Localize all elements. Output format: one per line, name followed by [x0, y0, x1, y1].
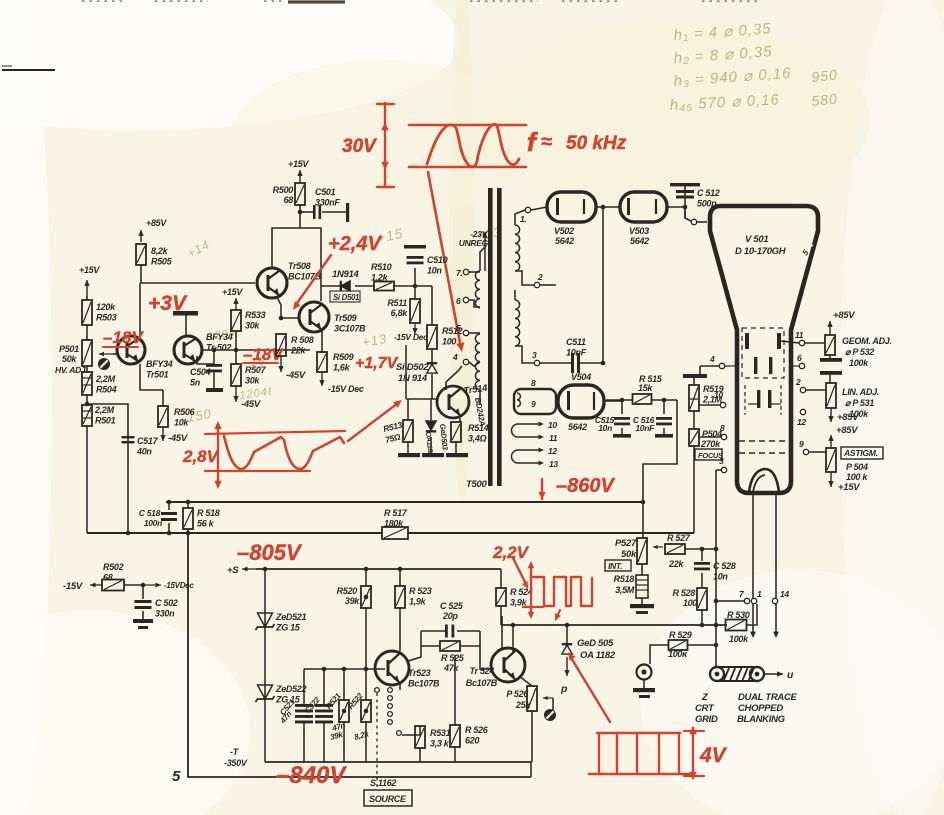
svg-text:+85V: +85V	[146, 218, 167, 228]
svg-text:R531: R531	[430, 728, 451, 738]
svg-text:5642: 5642	[555, 236, 574, 246]
svg-text:V502: V502	[554, 226, 574, 236]
svg-text:47k: 47k	[443, 663, 459, 673]
svg-text:R533: R533	[245, 310, 266, 320]
svg-text:12: 12	[797, 417, 806, 427]
svg-text:12: 12	[548, 446, 557, 456]
svg-text:-15V Dec: -15V Dec	[394, 332, 428, 342]
svg-text:R 528: R 528	[672, 588, 695, 598]
svg-text:DUAL TRACE: DUAL TRACE	[738, 692, 798, 703]
svg-text:INT.: INT.	[608, 561, 622, 571]
svg-text:3,4Ω: 3,4Ω	[468, 434, 487, 444]
svg-text:GeD 505: GeD 505	[577, 638, 614, 649]
svg-text:–805V: –805V	[237, 540, 303, 565]
svg-text:580: 580	[811, 90, 839, 109]
svg-text:10n: 10n	[598, 423, 612, 433]
svg-text:9: 9	[799, 439, 804, 449]
svg-text:950: 950	[811, 66, 839, 85]
svg-text:-350V: -350V	[224, 758, 248, 768]
svg-text:10: 10	[548, 420, 557, 430]
svg-text:R 526: R 526	[465, 725, 489, 735]
svg-text:10nF: 10nF	[635, 423, 655, 433]
svg-text:10n: 10n	[713, 572, 728, 582]
svg-text:Tr508: Tr508	[288, 261, 311, 271]
svg-text:R505: R505	[151, 257, 173, 267]
svg-text:u: u	[787, 669, 794, 681]
svg-text:Si D501: Si D501	[333, 293, 359, 302]
svg-text:30k: 30k	[245, 376, 260, 386]
svg-text:-15VDec: -15VDec	[164, 581, 194, 590]
svg-text:R 523: R 523	[409, 586, 432, 596]
svg-text:R514: R514	[468, 423, 489, 433]
svg-text:50 kHz: 50 kHz	[566, 133, 627, 154]
svg-text:R 524: R 524	[510, 587, 533, 597]
svg-text:22k: 22k	[290, 346, 306, 356]
svg-text:7.: 7.	[456, 268, 463, 278]
svg-text:R503: R503	[96, 313, 117, 323]
svg-text:ZeD521: ZeD521	[275, 612, 307, 622]
svg-text:LIN. ADJ.: LIN. ADJ.	[842, 387, 879, 397]
svg-text:GRID: GRID	[695, 714, 718, 725]
svg-text:R500: R500	[273, 185, 294, 195]
svg-text:R 527: R 527	[667, 533, 691, 543]
svg-text:Tr523: Tr523	[408, 668, 431, 678]
svg-text:1,6k: 1,6k	[333, 363, 351, 373]
svg-text:5n: 5n	[190, 378, 201, 388]
svg-text:11: 11	[549, 433, 558, 443]
svg-text:10nF: 10nF	[566, 348, 587, 358]
svg-text:R501: R501	[95, 416, 116, 426]
svg-text:C517: C517	[137, 436, 159, 446]
svg-text:68: 68	[103, 573, 113, 583]
svg-text:V504: V504	[571, 372, 591, 382]
svg-text:2,2V: 2,2V	[492, 543, 530, 562]
svg-text:+15V: +15V	[79, 265, 100, 275]
svg-text:120k: 120k	[96, 302, 116, 312]
svg-text:R520: R520	[337, 586, 358, 596]
svg-text:ZG 15: ZG 15	[275, 623, 301, 633]
svg-text:-15V: -15V	[63, 581, 83, 592]
svg-text:3,5M: 3,5M	[615, 585, 635, 595]
svg-text:C511: C511	[566, 337, 586, 347]
svg-text:1.: 1.	[520, 214, 527, 224]
svg-text:–860V: –860V	[556, 475, 615, 497]
svg-text:P 526: P 526	[506, 689, 529, 699]
svg-text:620: 620	[465, 736, 479, 746]
svg-text:22k: 22k	[668, 559, 684, 569]
svg-text:R502: R502	[103, 562, 124, 572]
svg-text:+15V: +15V	[222, 287, 243, 297]
svg-text:20p: 20p	[442, 611, 458, 621]
svg-text:100: 100	[442, 337, 456, 347]
svg-text:V503: V503	[629, 226, 649, 236]
svg-text:8: 8	[531, 378, 536, 388]
svg-text:5: 5	[456, 323, 461, 333]
svg-text:330n: 330n	[155, 609, 175, 619]
svg-text:+15V: +15V	[288, 159, 309, 169]
svg-text:2,8V: 2,8V	[182, 447, 220, 466]
svg-text:3: 3	[532, 350, 537, 360]
svg-text:T500: T500	[466, 479, 487, 490]
svg-text:P 504: P 504	[846, 462, 868, 472]
svg-text:5: 5	[172, 768, 181, 785]
svg-text:15k: 15k	[638, 383, 653, 393]
svg-text:ZeD522: ZeD522	[275, 684, 307, 694]
svg-text:+15V: +15V	[838, 482, 860, 493]
svg-text:100 k: 100 k	[846, 472, 868, 482]
svg-text:14: 14	[780, 589, 789, 599]
svg-text:⌀ P 532: ⌀ P 532	[845, 347, 874, 357]
svg-text:Bc107B: Bc107B	[466, 678, 498, 688]
svg-text:Si D502: Si D502	[396, 362, 429, 373]
svg-text:R511: R511	[387, 298, 407, 308]
svg-text:+2,4V: +2,4V	[328, 233, 382, 255]
svg-text:P527: P527	[615, 538, 637, 549]
svg-text:R 517: R 517	[384, 508, 408, 518]
svg-text:50k: 50k	[621, 549, 637, 560]
svg-text:R 518: R 518	[197, 508, 220, 518]
svg-text:39k: 39k	[345, 596, 360, 606]
svg-text:C 518: C 518	[139, 508, 161, 518]
svg-text:≈: ≈	[541, 131, 552, 153]
svg-text:68: 68	[284, 195, 294, 205]
svg-text:100: 100	[683, 598, 697, 608]
svg-text:10k: 10k	[174, 418, 189, 428]
svg-text:13: 13	[549, 459, 558, 469]
svg-text:R 530: R 530	[727, 610, 750, 620]
svg-text:–18V: –18V	[103, 328, 144, 347]
svg-text:Tr-502: Tr-502	[206, 343, 231, 353]
svg-text:6: 6	[797, 353, 802, 363]
svg-text:–18V: –18V	[243, 345, 284, 364]
svg-text:11: 11	[795, 330, 804, 340]
svg-text:Tr509: Tr509	[334, 313, 357, 323]
svg-text:–840V: –840V	[276, 762, 347, 789]
svg-text:R518: R518	[614, 574, 635, 584]
svg-text:C 528: C 528	[713, 561, 736, 571]
svg-text:+3V: +3V	[148, 292, 188, 315]
svg-text:6,8k: 6,8k	[391, 308, 409, 318]
svg-text:100k: 100k	[729, 634, 749, 644]
svg-text:C 525: C 525	[440, 601, 464, 611]
svg-text:BLANKING: BLANKING	[737, 714, 786, 725]
svg-text:⌀ P 531: ⌀ P 531	[845, 398, 874, 408]
svg-text:C 512: C 512	[697, 188, 720, 198]
svg-text:3,3 k: 3,3 k	[430, 739, 450, 749]
svg-text:1,9k: 1,9k	[409, 597, 427, 607]
svg-text:R 525: R 525	[441, 653, 465, 663]
svg-text:C504: C504	[190, 367, 211, 377]
svg-text:3C107B: 3C107B	[334, 324, 366, 334]
svg-text:10n: 10n	[427, 266, 442, 276]
svg-text:100κ: 100κ	[668, 649, 688, 659]
svg-text:4: 4	[452, 352, 458, 362]
svg-text:2,2M: 2,2M	[95, 374, 116, 384]
svg-text:R509: R509	[333, 352, 354, 362]
svg-text:2,2M: 2,2M	[94, 405, 115, 415]
svg-text:UNREG.: UNREG.	[459, 238, 490, 248]
svg-text:D 10-170GH: D 10-170GH	[735, 246, 787, 257]
svg-text:BFY34: BFY34	[146, 359, 173, 369]
svg-text:-45V: -45V	[168, 433, 188, 444]
svg-text:R504: R504	[96, 385, 117, 395]
svg-text:C501: C501	[315, 187, 336, 197]
svg-text:R506: R506	[174, 407, 196, 417]
svg-text:+1,7V: +1,7V	[355, 355, 399, 372]
svg-text:GEOM. ADJ.: GEOM. ADJ.	[842, 336, 892, 346]
svg-text:8: 8	[720, 423, 725, 433]
svg-text:180k: 180k	[384, 519, 404, 529]
svg-text:CRT: CRT	[695, 703, 715, 714]
svg-text:2: 2	[537, 272, 543, 282]
svg-text:100n: 100n	[144, 518, 162, 528]
svg-text:5642: 5642	[630, 236, 649, 246]
svg-text:-15V Dec: -15V Dec	[328, 384, 364, 394]
svg-text:56 k: 56 k	[197, 519, 215, 529]
svg-text:270k: 270k	[700, 439, 721, 449]
svg-text:8,2k: 8,2k	[151, 246, 169, 256]
svg-text:10: 10	[714, 390, 723, 400]
svg-text:Tr 524: Tr 524	[469, 666, 494, 676]
svg-text:40n: 40n	[136, 447, 152, 457]
svg-text:C510: C510	[427, 255, 448, 265]
svg-text:4V: 4V	[699, 744, 728, 767]
svg-text:6: 6	[456, 296, 461, 306]
svg-text:9: 9	[531, 399, 536, 409]
svg-text:-45V: -45V	[241, 399, 261, 410]
svg-text:+85V: +85V	[837, 412, 859, 423]
svg-text:1: 1	[757, 589, 762, 599]
svg-text:ASTIGM.: ASTIGM.	[843, 448, 878, 458]
svg-text:50k: 50k	[62, 354, 77, 364]
svg-text:25k: 25k	[515, 700, 531, 710]
svg-text:Bc107B: Bc107B	[408, 679, 440, 689]
svg-text:V 501: V 501	[745, 234, 768, 245]
svg-text:1N 914: 1N 914	[398, 373, 428, 384]
svg-text:R 529: R 529	[669, 630, 692, 640]
svg-text:R507: R507	[245, 365, 267, 375]
svg-text:+85V: +85V	[836, 425, 858, 436]
svg-text:CHOPPED: CHOPPED	[738, 703, 783, 714]
svg-text:5642: 5642	[568, 422, 587, 432]
svg-text:OA 1182: OA 1182	[580, 650, 616, 661]
svg-text:SOURCE: SOURCE	[369, 794, 407, 804]
svg-text:30k: 30k	[245, 321, 260, 331]
svg-text:3: 3	[719, 456, 724, 466]
svg-text:1N914: 1N914	[332, 269, 360, 280]
svg-text:4: 4	[709, 354, 715, 364]
svg-text:30V: 30V	[342, 136, 377, 157]
svg-text:+85V: +85V	[833, 310, 855, 321]
svg-text:R510: R510	[371, 262, 392, 272]
svg-text:P501: P501	[59, 344, 79, 354]
svg-text:p: p	[560, 683, 568, 695]
svg-text:Tr501: Tr501	[146, 370, 169, 380]
svg-text:+S: +S	[227, 565, 239, 576]
svg-text:100k: 100k	[849, 358, 869, 368]
svg-text:2: 2	[795, 377, 801, 387]
svg-text:S 1162: S 1162	[370, 778, 396, 788]
svg-text:BFY34: BFY34	[206, 332, 233, 342]
svg-text:C 502: C 502	[155, 598, 178, 608]
svg-text:-45V: -45V	[286, 370, 306, 381]
svg-text:R 508: R 508	[291, 335, 314, 345]
